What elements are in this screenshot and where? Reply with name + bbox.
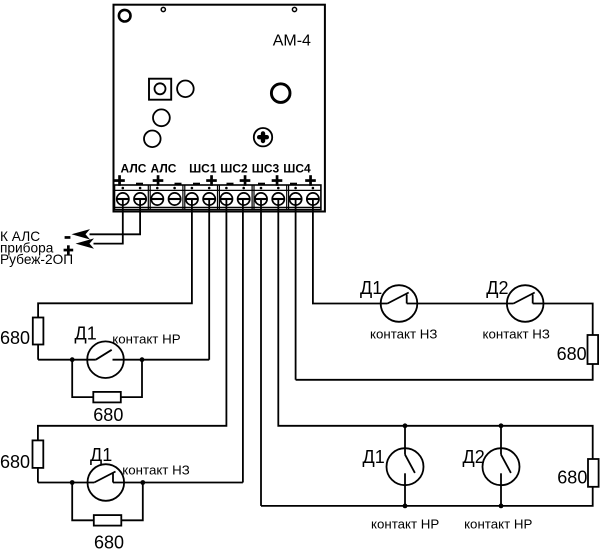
terminal 7 ShS2- [220,193,232,205]
svg-text:680: 680 [557,467,587,487]
wire ShS2+ vertical [242,199,244,483]
terminal 4 ALS- spare [169,193,181,205]
svg-text:Рубеж-2ОП: Рубеж-2ОП [0,252,73,267]
terminal screw pilot dots [122,187,315,190]
resistor 680 end-of-line ShS4 [588,335,599,364]
svg-text:Д1: Д1 [363,447,385,467]
minus ShS4 [290,183,297,186]
detector circle D1 ShS2 [88,464,125,501]
parallel branch right [121,483,143,521]
resistor 680 parallel ShS2 [94,515,122,526]
detector circle D2 ShS4 [507,285,544,322]
detector circle D1 ShS1 [87,341,124,378]
plus ALS1 [114,179,125,182]
svg-text:ШС4: ШС4 [283,161,311,175]
fixing hole right [292,7,296,11]
minus ALS1 [136,183,143,186]
resistor 680 end-of-line ShS3 [588,459,599,487]
contact arm D1 NC [388,293,409,304]
wire main line right segment [113,359,210,361]
wire ShS2- down and left [38,199,227,440]
svg-text:ШС3: ШС3 [252,161,280,175]
junction dot D2 bottom [499,504,504,509]
indicator circle right of square [177,81,194,98]
wire ALS- vertical [90,199,141,234]
wire ShS1+ vertical [208,199,210,360]
terminal 12 ShS4+ [307,193,319,205]
plus ShS1 [206,179,217,182]
resistor 680 end-of-line ShS1 [33,318,44,345]
svg-text:ШС2: ШС2 [220,161,248,175]
junction dot D1 top [403,423,408,428]
wire ShS4- vertical [295,199,297,380]
svg-text:АЛС: АЛС [151,161,177,175]
terminal 6 ShS1+ [203,193,215,205]
wire resistor to main line [37,468,39,483]
contact arm D1 NC [94,472,115,483]
wire resistor to bottom rail [261,487,593,506]
svg-text:контакт НЗ: контакт НЗ [483,326,550,341]
detector circle D1 ShS3 [387,448,424,485]
svg-text:Д1: Д1 [75,324,97,344]
minus ALS2 [175,183,182,186]
svg-text:контакт НЗ: контакт НЗ [370,326,437,341]
minus ShS1 [193,183,200,186]
resistor 680 end-of-line ShS2 [33,440,44,468]
wire resistor to bottom rail [296,364,593,380]
parallel branch right [121,360,142,397]
jumper inner circle [155,83,166,94]
plus sign near arrow [64,245,74,255]
group separators [148,185,288,210]
arrowhead ALS+ [76,238,95,248]
wire ShS3+ vertical and top rail [278,199,592,459]
svg-text:680: 680 [557,344,587,364]
svg-text:680: 680 [93,405,123,425]
terminal block lower rail line [115,206,321,208]
detector D2 top stub [500,426,502,455]
terminal block upper rail line [115,189,321,191]
wire main line left segment [38,359,96,361]
terminal 5 ShS1- [186,193,198,205]
indicator circle middle [153,109,170,126]
terminal 2 ALS- [134,193,146,205]
terminal 10 ShS3+ [272,193,284,205]
screw with phillips head [254,128,272,146]
wire to right resistor [533,304,593,336]
detector D2 bottom stub [500,473,502,506]
terminal 11 ShS4- [290,193,302,205]
polarity marks [114,175,316,186]
svg-text:680: 680 [0,452,30,472]
plus ShS4 [305,179,316,182]
svg-text:680: 680 [94,533,124,552]
terminal 1 ALS+ [117,193,129,205]
parallel branch left [72,360,93,397]
arrowhead ALS- [72,229,91,239]
terminal screws [117,193,319,205]
plus ALS2 [153,179,164,182]
svg-text:Д1: Д1 [90,445,112,465]
wire ALS+ vertical [94,199,123,244]
minus sign near arrow [65,236,71,239]
terminal group labels [121,161,311,175]
indicator circle lower-left [144,131,161,148]
wire ShS3- vertical [260,199,262,506]
svg-text:АЛС: АЛС [121,161,147,175]
junction dot D1 bottom [403,504,408,509]
terminal 8 ShS2+ [238,193,250,205]
wire main line right segment [113,482,243,484]
text to ALS of panel [0,229,73,267]
contact stop bar [112,473,114,482]
plus ShS2 [240,179,251,182]
detector circle D1 ShS4 [381,285,418,322]
svg-text:контакт НР: контакт НР [464,516,532,531]
detector D1 top stub [404,426,406,455]
junction dot D2 top [499,423,504,428]
wire resistor to main line [37,345,39,360]
module AM-4 body [114,5,325,212]
svg-text:ШС1: ШС1 [189,161,217,175]
svg-text:контакт НЗ: контакт НЗ [122,462,189,477]
contact stop bar D2 [532,294,534,303]
svg-text:контакт НР: контакт НР [371,516,439,531]
fixing hole left [161,7,165,11]
minus ShS2 [227,183,234,186]
jumper square [149,79,171,100]
svg-text:АМ-4: АМ-4 [273,32,311,49]
plus ShS3 [272,179,283,182]
mounting hole top-left [119,10,131,22]
terminal block outline [115,185,321,210]
svg-text:Д2: Д2 [486,278,508,298]
junction dot right [140,480,145,485]
svg-text:Д2: Д2 [463,447,485,467]
wire between detectors [407,303,514,305]
wire ShS4+ vertical [313,199,388,304]
resistor 680 parallel ShS1 [93,392,121,403]
contact arm D2 NO vertical [501,455,511,473]
contact arm D1 NO vertical [405,455,415,473]
wire main line left segment [38,482,94,484]
svg-text:контакт НР: контакт НР [112,331,180,346]
contact arm D2 NC [514,293,535,304]
terminal 9 ShS3- [255,193,267,205]
terminal 3 ALS+ spare [151,193,163,205]
thick ring hole right [271,84,290,103]
junction dot left [70,357,75,362]
junction dot right [140,357,145,362]
wire ShS1- down and left [38,199,192,318]
parallel branch left [72,483,94,521]
detector D1 bottom stub [404,473,406,506]
contact arm D1 NO [96,350,112,360]
svg-text:Д1: Д1 [360,278,382,298]
contact stop bar D1 [406,294,408,303]
junction dot left [70,480,75,485]
detector circle D2 ShS3 [483,448,520,485]
svg-text:680: 680 [0,328,30,348]
minus ShS3 [258,183,265,186]
